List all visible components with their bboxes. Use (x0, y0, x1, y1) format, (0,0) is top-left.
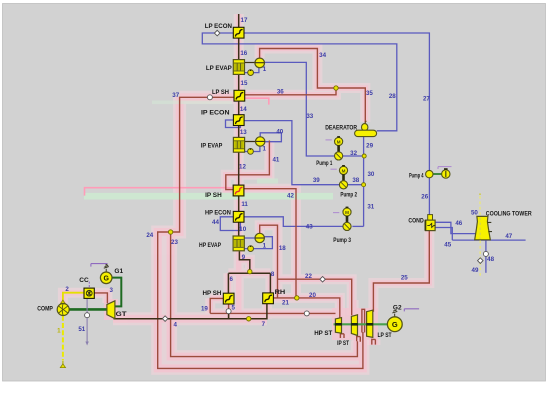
svg-text:33: 33 (306, 113, 313, 120)
wire 23 loop: dot to IP admission (171, 233, 358, 357)
svg-text:18: 18 (279, 245, 286, 252)
wire 51: CC blowoff (86, 299, 88, 342)
svg-text:Pump 4: Pump 4 (409, 173, 424, 180)
svg-text:HP SH: HP SH (203, 290, 222, 297)
wire LP EVAP recirc (245, 67, 259, 72)
wire HP ST drain n (340, 333, 344, 338)
wire 38: pump 2 to downcomer (348, 184, 364, 186)
svg-text:23: 23 (171, 239, 178, 246)
generator G1 (104, 264, 109, 272)
wire 32: pump 1 to downcomer (343, 155, 364, 157)
svg-text:IP EVAP: IP EVAP (201, 143, 223, 150)
compressor COMP (61, 300, 66, 303)
svg-text:28: 28 (389, 93, 396, 100)
svg-text:CC: CC (79, 277, 89, 284)
svg-text:G: G (103, 276, 109, 283)
svg-text:COMP: COMP (37, 305, 53, 312)
shaft GT-G1 (112, 278, 121, 307)
steam turbine LP ST (367, 310, 373, 337)
wire cooling tower air dashed above (479, 196, 481, 216)
wire 15 (238, 74, 240, 90)
pale green jpeg-ghost bands (84, 193, 333, 200)
wire IP-LP crossover pipe (362, 309, 365, 332)
junction dot gas merge (247, 317, 251, 321)
svg-text:1: 1 (263, 66, 267, 73)
svg-text:19: 19 (201, 305, 208, 312)
svg-text:46: 46 (455, 220, 462, 227)
wire 43/44: HP ECON loops to pump 3 (220, 217, 344, 231)
sensor circle 5 (226, 309, 231, 314)
svg-text:HP ST: HP ST (314, 330, 332, 337)
wire 3: CC to GT (94, 293, 107, 303)
svg-text:2: 2 (65, 286, 69, 293)
svg-text:G1: G1 (114, 268, 123, 275)
svg-text:16: 16 (240, 50, 247, 57)
gas turbine GT (107, 301, 115, 319)
svg-text:42: 42 (287, 193, 294, 200)
wire 36: LP SH to junction (244, 89, 336, 95)
heat exchanger LP ECON (233, 27, 244, 38)
heat exchanger HP ECON (233, 211, 244, 222)
svg-text:43: 43 (306, 224, 313, 231)
svg-text:17: 17 (241, 17, 248, 24)
svg-text:RH: RH (275, 289, 286, 296)
wire 41: IP drum to IP SH left loop (226, 141, 270, 190)
svg-text:36: 36 (277, 88, 284, 95)
wire 13 (238, 125, 240, 137)
wire main steam to HP ST (210, 312, 335, 314)
wire 6/8 header (228, 272, 270, 274)
sensor diamond 4 (162, 316, 168, 322)
svg-text:44: 44 (212, 219, 219, 226)
svg-text:12: 12 (239, 163, 246, 170)
sensor diamond 49 (478, 258, 484, 264)
svg-text:1: 1 (57, 328, 61, 335)
wire 14 (238, 102, 240, 115)
junction dot gas split (248, 269, 252, 273)
wire 8 drop to RH (269, 273, 271, 294)
wire 6 drop to HP SH (227, 273, 229, 294)
svg-text:G2: G2 (393, 304, 402, 311)
svg-text:35: 35 (366, 90, 373, 97)
svg-text:1: 1 (262, 145, 266, 152)
svg-text:51: 51 (78, 326, 85, 333)
selected pink stub at LP SH (244, 98, 269, 104)
pump LP recirculation (248, 70, 254, 76)
junction dot 38 (362, 183, 366, 187)
svg-text:24: 24 (146, 232, 153, 239)
pump 4 (426, 170, 433, 177)
svg-text:41: 41 (272, 157, 279, 164)
wire 27: LP ECON right to pump 4 (244, 33, 429, 170)
wire 20/21: HP ST exhaust to RH (273, 298, 340, 318)
wire G2 exciter line (404, 309, 419, 312)
steam turbine HP ST (335, 318, 341, 334)
wire pump1 signal (326, 139, 332, 141)
shaft turbine train (334, 323, 388, 325)
svg-text:8: 8 (271, 271, 275, 278)
svg-text:47: 47 (505, 233, 512, 240)
wire 46: condenser to tower (435, 222, 476, 233)
svg-text:26: 26 (421, 194, 428, 201)
svg-text:32: 32 (350, 150, 357, 157)
wire 39: IP ECON to pump 2 (244, 121, 339, 185)
shaft COMP-GT (69, 308, 108, 311)
generator G2 (392, 310, 397, 317)
drum IP (256, 137, 265, 146)
svg-text:40: 40 (276, 128, 283, 135)
svg-text:38: 38 (352, 177, 359, 184)
sensor circle 51 (85, 313, 90, 318)
svg-text:4: 4 (173, 322, 177, 329)
svg-text:Pump 1: Pump 1 (316, 160, 332, 167)
wire to LP ECON left + under loop + wire 28 to deaerator (202, 33, 396, 131)
junction dot 32 (362, 154, 366, 158)
svg-text:Pump 3: Pump 3 (333, 237, 351, 244)
svg-text:50: 50 (471, 210, 478, 217)
wire 45/47: tower basin line (435, 228, 526, 241)
svg-text:GT: GT (116, 311, 127, 318)
heat exchanger IP EVAP (233, 137, 244, 152)
sensor diamond LP ECON (214, 30, 220, 36)
steam turbine IP ST (351, 315, 357, 336)
junction dot 35 (334, 86, 338, 90)
wire 37: LP SH left loop down to split dot (171, 97, 234, 232)
svg-text:3: 3 (109, 287, 113, 294)
wire 24 loop: dot to LP admission (158, 232, 363, 368)
svg-text:34: 34 (319, 52, 326, 59)
junction dot 21 (295, 296, 299, 300)
sensor circle 48 (483, 251, 488, 256)
svg-text:COOLING TOWER: COOLING TOWER (486, 211, 532, 218)
wire 22: hot reheat to IP ST (278, 279, 352, 315)
air source symbol (62, 361, 64, 366)
heat exchanger IP ECON (233, 115, 244, 126)
svg-text:22: 22 (305, 273, 312, 280)
svg-text:9: 9 (242, 254, 246, 261)
wire 19: HP SH left loop (210, 298, 223, 313)
svg-text:G: G (392, 320, 398, 329)
wire 49 dashed below tower (479, 241, 481, 278)
wire 34/35: LP drum + LP SH steam to deaerator (260, 49, 366, 125)
svg-text:31: 31 (367, 203, 374, 210)
wire pump 3 suction from downcomer (352, 225, 363, 227)
wire LP drum connector (245, 62, 260, 64)
heat exchanger LP EVAP (233, 60, 244, 75)
wire 33: LP drum to pump 1 (264, 62, 334, 156)
svg-text:LP EVAP: LP EVAP (206, 65, 233, 72)
node labels numbers (57, 17, 513, 335)
svg-text:7: 7 (262, 321, 266, 328)
heat exchanger IP SH selected (233, 185, 244, 196)
wire fuel dash above CC (88, 282, 90, 288)
wire 9 + jog to split dot (239, 251, 249, 271)
svg-text:20: 20 (309, 292, 316, 299)
svg-text:DEAERATOR: DEAERATOR (325, 125, 357, 132)
svg-text:48: 48 (487, 256, 494, 263)
svg-text:49: 49 (472, 267, 479, 274)
wire IP ST drain n (357, 336, 361, 342)
wire 17 stack segment (238, 14, 240, 27)
heat exchanger HP SH (223, 293, 234, 304)
svg-text:IP SH: IP SH (205, 192, 222, 199)
wire 40: IP drum top loop (260, 133, 281, 142)
sensor circle 37 (207, 95, 212, 100)
sensor diamond 22 (320, 277, 326, 283)
svg-text:25: 25 (401, 274, 408, 281)
wire 16 (238, 38, 240, 59)
heat exchanger RH (263, 293, 274, 304)
wire G1 exciter line (91, 264, 108, 267)
wire 7 link from HP SH bottom (228, 313, 230, 318)
combustion chamber CC (84, 288, 94, 298)
wire 29/30/31: deaerator downcomer (363, 137, 365, 227)
svg-text:LP ECON: LP ECON (205, 23, 233, 30)
pump IP recirculation (248, 149, 254, 155)
pump 1 (335, 136, 343, 160)
heat exchanger LP SH (234, 90, 245, 101)
svg-text:Pump 2: Pump 2 (340, 191, 357, 198)
wire 48: below tower (485, 240, 487, 273)
svg-text:HP EVAP: HP EVAP (199, 242, 222, 249)
pump HP recirculation (248, 246, 254, 252)
svg-text:39: 39 (313, 177, 320, 184)
heat exchanger HP EVAP (233, 236, 244, 251)
svg-text:LP ST: LP ST (378, 332, 392, 339)
wire 2: COMP to CC (63, 293, 84, 304)
condenser COND (428, 215, 433, 221)
svg-text:5: 5 (231, 304, 235, 311)
shaft pump 4 (433, 173, 442, 175)
svg-text:29: 29 (366, 143, 373, 150)
svg-text:21: 21 (282, 300, 289, 307)
cooling tower (475, 216, 491, 239)
pump 3 (343, 207, 351, 231)
svg-text:37: 37 (172, 92, 179, 99)
wire IP EVAP recirc (243, 146, 260, 152)
wire 18: HP drum to reheat junctions (260, 225, 278, 298)
wire HP drum right loop + recirc (244, 237, 273, 249)
wire 11 (238, 196, 240, 211)
deaerator vessel (362, 124, 368, 131)
wire IP drum connector (243, 141, 260, 143)
svg-text:27: 27 (423, 96, 430, 103)
wire 25: LP ST exhaust to condenser (373, 231, 429, 312)
sensor circle main steam (304, 311, 309, 316)
svg-text:11: 11 (241, 201, 248, 208)
wire pump4 signal (438, 167, 452, 169)
drum HP (255, 233, 264, 242)
drum LP (255, 58, 265, 68)
wire IP ECON left loop (226, 120, 241, 128)
svg-text:IP ECON: IP ECON (201, 110, 230, 117)
svg-text:LP SH: LP SH (212, 89, 229, 96)
wire 10 (238, 222, 240, 236)
wire 12 (238, 152, 240, 186)
wire 5: HP SH bottom drop (228, 304, 230, 319)
svg-text:1: 1 (263, 242, 267, 249)
svg-text:30: 30 (367, 171, 374, 178)
wire pump3 signal (333, 212, 339, 214)
svg-text:10: 10 (239, 226, 246, 233)
svg-text:45: 45 (444, 241, 451, 248)
wire LP ST drain n (372, 339, 376, 345)
svg-text:COND: COND (408, 218, 424, 225)
svg-text:HP ECON: HP ECON (205, 209, 231, 216)
svg-text:6: 6 (229, 276, 233, 283)
svg-text:14: 14 (240, 106, 247, 113)
pump 2 (339, 165, 347, 189)
selected pink stream line into IP SH (85, 188, 234, 196)
wire 26: pump 4 to condenser (428, 178, 430, 215)
wire HP drum feed (240, 237, 255, 239)
svg-text:13: 13 (240, 129, 247, 136)
wire 1: air intake dashed (62, 316, 64, 361)
wire pump2 signal (331, 168, 337, 170)
svg-text:IP ST: IP ST (337, 340, 349, 347)
svg-text:15: 15 (241, 80, 248, 87)
wire 4: GT exhaust (114, 303, 267, 318)
junction dot 37 split (168, 230, 172, 234)
wire 42: IP SH right to junction 21 (244, 189, 296, 297)
